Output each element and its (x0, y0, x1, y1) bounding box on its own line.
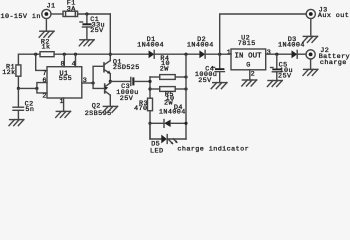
ground under C2 (9, 120, 24, 126)
wire pin3 to Q1 base (93, 66, 104, 83)
pin 4 lead (75, 54, 77, 66)
pin 2 lead U2 (249, 70, 251, 80)
svg-text:2W: 2W (164, 99, 173, 107)
ground under J3 (303, 36, 318, 42)
pin 3 lead (82, 82, 93, 84)
svg-text:2W: 2W (160, 65, 169, 73)
diode D2 (187, 36, 214, 58)
wire J1 to F1 (51, 13, 63, 15)
resistor R1 (2, 64, 21, 77)
svg-text:1N4004: 1N4004 (137, 42, 164, 50)
wire D2 to U2 pin1 (205, 53, 231, 55)
connector J1 (42, 9, 51, 18)
junction pin7 node (34, 53, 37, 56)
wire R1 bottom to node (17, 76, 19, 88)
svg-text:5n: 5n (25, 106, 34, 114)
svg-text:2SB595: 2SB595 (85, 110, 112, 118)
junction D4 left (148, 122, 151, 125)
junction rail x right vertical (184, 53, 187, 56)
pin 1 lead (63, 98, 65, 111)
wire rail left corner to R1 (18, 54, 40, 65)
junction C5 node (275, 53, 278, 56)
junction R1 C2 node (17, 87, 20, 90)
svg-text:1: 1 (60, 98, 64, 106)
junction C3 right (148, 80, 151, 83)
wire riser to J3 (220, 14, 307, 54)
svg-text:charge: charge (320, 59, 347, 67)
svg-text:charge indicator: charge indicator (177, 145, 249, 153)
diode D1 (137, 36, 164, 58)
svg-text:7815: 7815 (238, 40, 256, 48)
svg-text:Aux out: Aux out (318, 12, 349, 20)
junction C4 J3 riser node (218, 53, 221, 56)
svg-text:12k: 12k (2, 69, 15, 77)
IC U1 555 (47, 67, 82, 98)
wire bracket pin6 pin2 (37, 83, 47, 93)
capacitor C1 (80, 14, 105, 40)
wire pin3 to Q2 base (93, 83, 105, 88)
junction C1 node (85, 12, 88, 15)
junction R5 right (184, 87, 187, 90)
junction bracket (35, 87, 38, 90)
junction D4 right (184, 122, 187, 125)
svg-text:1N4004: 1N4004 (159, 108, 186, 116)
ground under C1 (79, 40, 94, 46)
svg-text:555: 555 (59, 75, 72, 83)
pin 7 lead (36, 54, 47, 70)
svg-text:470: 470 (134, 105, 147, 113)
wire riser top rail down to Q1 collector (109, 14, 111, 61)
ground under J2 (303, 69, 318, 75)
svg-text:J1: J1 (47, 2, 56, 10)
resistor R4 (150, 55, 186, 79)
svg-text:1k: 1k (42, 43, 51, 51)
wire Q1 emitter to C3 node (109, 74, 111, 83)
diode D3 (278, 36, 305, 58)
svg-text:1N4004: 1N4004 (187, 41, 214, 49)
svg-text:2SD525: 2SD525 (113, 64, 140, 72)
wire rail R2 to D1 (54, 53, 149, 55)
IC U2 7815 (231, 34, 266, 69)
wire J2 to ground (310, 59, 312, 69)
junction emitter node (109, 80, 112, 83)
ground under U2 (242, 80, 257, 86)
wire F1 to riser corner (78, 13, 111, 15)
wire right vertical (185, 54, 187, 139)
svg-text:6: 6 (42, 77, 46, 85)
svg-text:25V: 25V (90, 27, 104, 35)
ground under C4 (211, 83, 227, 89)
resistor R2 (40, 38, 54, 56)
connector J3 (306, 7, 349, 21)
resistor R5 (150, 87, 186, 108)
wire node to bracket (18, 87, 37, 89)
svg-text:3: 3 (267, 49, 271, 57)
ground under J1 (39, 31, 54, 37)
svg-text:2: 2 (251, 71, 255, 79)
svg-text:10-15V in: 10-15V in (1, 13, 41, 21)
capacitor C4 (195, 54, 225, 85)
wire J1 to ground (45, 19, 47, 32)
svg-text:4: 4 (72, 60, 76, 68)
junction pin8 (63, 53, 66, 56)
junction riser x Vcc rail (109, 53, 112, 56)
svg-text:LED: LED (150, 147, 163, 153)
transistor Q2 (85, 83, 112, 118)
svg-text:1N4004: 1N4004 (278, 42, 305, 50)
pin 8 lead (63, 54, 65, 66)
svg-text:G: G (246, 62, 250, 70)
svg-text:8: 8 (61, 60, 65, 68)
svg-text:25V: 25V (198, 77, 212, 85)
svg-text:3: 3 (83, 77, 87, 85)
junction pin4 (74, 53, 77, 56)
svg-text:2: 2 (42, 93, 46, 101)
connector J2 (306, 47, 350, 67)
svg-text:3A: 3A (67, 6, 76, 14)
capacitor C5 (271, 54, 293, 80)
junction R5 left (148, 87, 151, 90)
wire D3 to J2 (297, 53, 306, 55)
svg-text:IN OUT: IN OUT (235, 53, 263, 61)
diode D4 (150, 104, 186, 127)
junction R4 right (184, 75, 187, 78)
svg-text:1: 1 (227, 49, 231, 57)
transistor Q1 (104, 59, 140, 74)
svg-text:25V: 25V (278, 72, 292, 80)
junction pin3 node (92, 81, 95, 84)
resistor R3 (134, 98, 153, 113)
wire J3 to ground (310, 19, 312, 37)
fuse F1 (63, 0, 78, 17)
ground under C5 (267, 81, 282, 87)
capacitor C2 (13, 88, 34, 119)
ground under pin1 (56, 111, 71, 117)
ground under Q2 (103, 106, 118, 112)
wire Q2 collector to ground (109, 95, 111, 106)
LED D5 (150, 123, 186, 155)
wire D1 to D2 (154, 53, 199, 55)
wire U2 pin3 to D3 (266, 53, 292, 55)
svg-text:25V: 25V (120, 95, 134, 103)
wire left vertical of R4 R5 network (149, 77, 151, 139)
capacitor C3 (110, 77, 150, 103)
